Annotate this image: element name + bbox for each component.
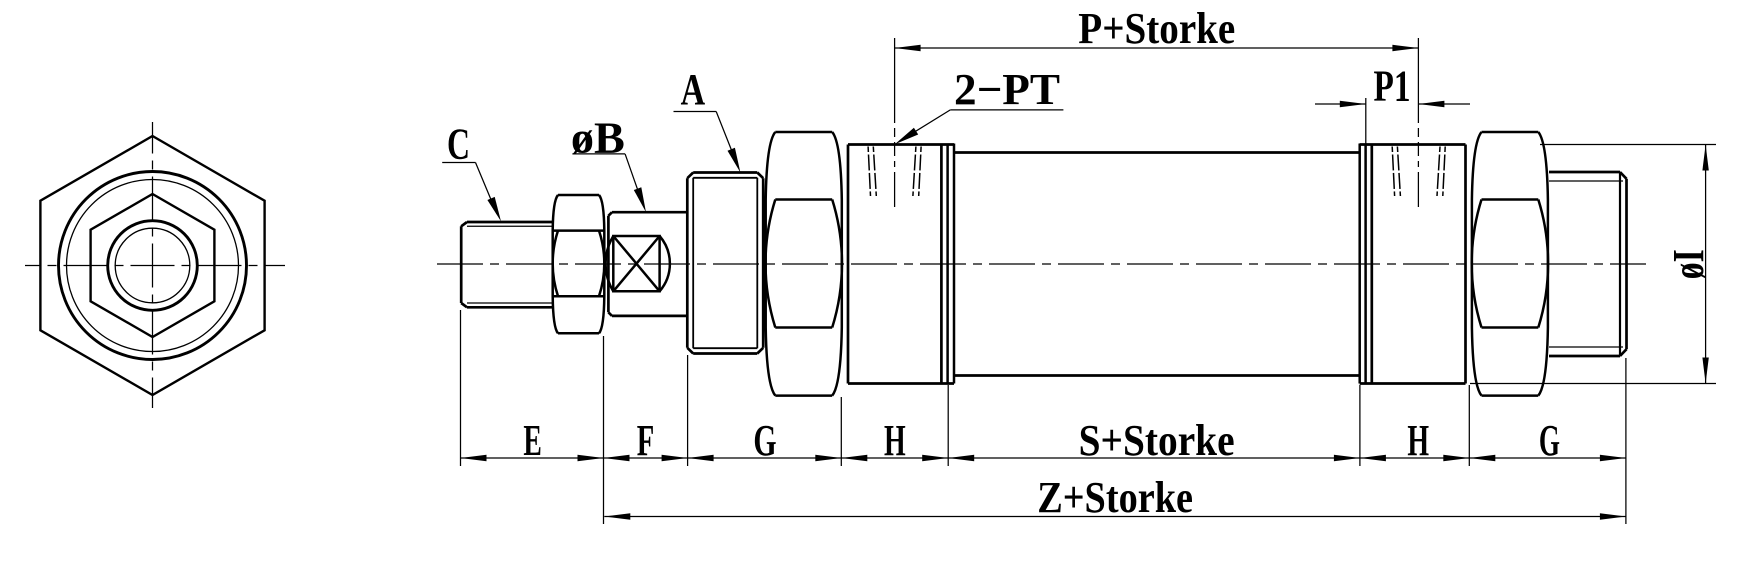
svg-text:P+Storke: P+Storke (1078, 4, 1235, 53)
svg-text:øB: øB (571, 114, 625, 163)
rear boss thread root lines (1549, 181, 1623, 347)
dimension øI: arrows (1702, 145, 1708, 384)
dimension øI: extension + line (1470, 145, 1716, 384)
wrench flat side arcs (606, 236, 670, 291)
rear hex facet arcs (1472, 200, 1548, 328)
tube rear face (1358, 144, 1361, 384)
rear mounting hex (1472, 132, 1548, 396)
svg-text:S+Storke: S+Storke (1079, 416, 1235, 465)
end view: inner hexagon (piston rod nut) (91, 194, 215, 337)
svg-text:E: E (523, 416, 542, 465)
svg-text:P1: P1 (1374, 62, 1411, 111)
front port centerline (894, 38, 896, 207)
svg-text:G: G (1539, 416, 1560, 465)
rod cover section A: outline (687, 173, 763, 354)
label 2-PT: arrowhead (895, 128, 918, 145)
rear port centerline (1417, 38, 1419, 207)
tube front retaining ring (946, 144, 949, 384)
rear boss chamfer line (1619, 172, 1621, 356)
label 2-PT: leader (901, 110, 1063, 140)
end view: outer hexagon (40, 136, 264, 395)
end view: outer circle (cap diameter) (59, 172, 247, 360)
dimension P+Storke: arrows (895, 45, 1419, 51)
end view: rod boss circle (108, 221, 198, 311)
label øB: arrowhead (634, 187, 646, 212)
end view: vertical centerline (152, 122, 154, 408)
piston rod C: outline (461, 222, 552, 307)
front hex facet arcs (766, 200, 842, 328)
rear port thread (hidden) lines (1392, 147, 1445, 197)
svg-text:A: A (681, 65, 706, 114)
dimension P+Storke: line (895, 47, 1419, 49)
bottom row extension lines (461, 310, 1626, 524)
end view: rod thread circle (115, 228, 190, 303)
tube rear retaining ring (1364, 144, 1367, 384)
piston rod C: thread root lines (467, 226, 552, 303)
svg-text:C: C (447, 119, 470, 168)
dimension line Z+Storke (604, 516, 1626, 518)
main horizontal centerline (437, 263, 1646, 265)
label A: leader (674, 112, 738, 165)
svg-text:H: H (884, 416, 906, 465)
rear threaded boss G: outline (1549, 172, 1627, 356)
rear head cover (H): outline (1360, 145, 1466, 384)
svg-text:Z+Storke: Z+Storke (1037, 473, 1193, 522)
svg-text:H: H (1407, 416, 1429, 465)
wrench flat square with cross (613, 236, 659, 291)
dimension P1: arrows (1340, 101, 1445, 107)
svg-text:øI: øI (1664, 249, 1713, 279)
end view: horizontal centerline (25, 265, 285, 267)
svg-text:G: G (753, 416, 776, 465)
label øB: leader (572, 154, 643, 205)
front port thread (hidden) lines (868, 147, 921, 197)
front mounting hex (766, 132, 842, 396)
bottom row arrows (461, 455, 1626, 520)
end view: chamfer circle (67, 180, 239, 352)
label A: arrowhead (728, 148, 741, 173)
rod hex nut facet arcs (553, 231, 605, 297)
tube front face (953, 144, 956, 384)
rod hex nut (553, 195, 605, 333)
svg-text:F: F (637, 416, 655, 465)
front head cover (H): outline (848, 145, 954, 384)
dimension P1: lines (1315, 98, 1470, 144)
svg-text:2−PT: 2−PT (954, 65, 1060, 114)
cylinder tube (954, 153, 1360, 376)
section A chamfer lines (693, 178, 757, 348)
label C: leader (442, 163, 497, 215)
label C: arrowhead (487, 197, 501, 222)
bottom dimension line E F G H S+Storke H G (461, 457, 1626, 459)
rod wrench-flat section (øB): outline (608, 212, 687, 316)
